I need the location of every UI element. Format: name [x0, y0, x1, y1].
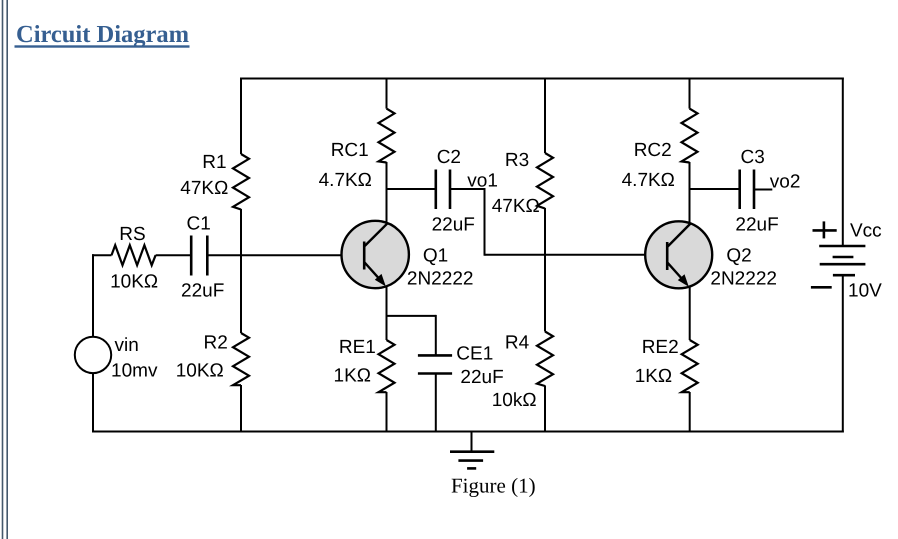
svg-text:RE1: RE1 — [339, 337, 376, 358]
wire collector node to C2 — [387, 188, 436, 190]
resistor RE2 1K — [682, 340, 698, 392]
capacitor C3 22uF — [740, 170, 754, 210]
svg-text:4.7KΩ: 4.7KΩ — [319, 170, 372, 191]
svg-text:47KΩ: 47KΩ — [180, 178, 228, 199]
wire C2 to vo1 corner — [450, 188, 486, 190]
svg-text:R4: R4 — [505, 332, 530, 353]
wire battery to bottom rail — [842, 275, 844, 432]
wire RS to C1 — [156, 254, 191, 256]
wire R3 column top — [544, 78, 546, 154]
svg-text:4.7KΩ: 4.7KΩ — [622, 170, 675, 191]
wire vo1 node to Q2 base (crosses R3 column) — [485, 254, 668, 256]
wire RE2 to bottom rail — [689, 392, 691, 433]
wire R4 to bottom rail — [544, 386, 546, 433]
wire RC2 column top — [689, 78, 691, 109]
wire R2 to bottom rail — [240, 385, 242, 433]
wire left input column (vin branch) — [92, 254, 94, 432]
wire input line vin to RS — [92, 254, 112, 256]
svg-text:10KΩ: 10KΩ — [176, 360, 224, 381]
wire CE1 to bottom rail — [435, 374, 437, 433]
resistor RS 10K — [112, 245, 156, 265]
svg-text:R3: R3 — [505, 150, 529, 171]
wire RC1 column top — [386, 78, 388, 109]
wire vo1 down — [484, 189, 486, 256]
wire node to R2 — [240, 255, 242, 334]
svg-text:10KΩ: 10KΩ — [110, 272, 158, 293]
svg-text:1KΩ: 1KΩ — [334, 365, 371, 386]
resistor RE1 1K — [379, 340, 395, 392]
source vin 10mv — [75, 337, 111, 373]
resistor R4 10k — [537, 332, 553, 387]
resistor R3 47K — [537, 153, 553, 209]
wire C3 to vo2 terminal — [754, 189, 772, 191]
wire C1 to Q1 base (through node at R1/R2) — [207, 254, 364, 256]
svg-text:Vcc: Vcc — [850, 220, 882, 241]
capacitor C1 22uF — [191, 236, 207, 276]
wire Vcc column top — [842, 78, 844, 247]
battery Vcc 10V — [819, 246, 865, 275]
transistor Q1 2N2222 — [342, 221, 409, 288]
svg-text:2N2222: 2N2222 — [407, 269, 474, 290]
svg-text:Q1: Q1 — [423, 246, 448, 267]
wire RC1 to Q1 collector — [386, 162, 388, 223]
title Circuit Diagram — [15, 21, 190, 48]
wire top supply rail — [240, 78, 844, 80]
page left border double line — [3, 0, 8, 539]
svg-text:vin: vin — [115, 335, 139, 356]
svg-text:C2: C2 — [437, 147, 461, 168]
ground — [450, 432, 494, 469]
wire R1 to input node — [240, 209, 242, 256]
resistor R2 10K — [233, 333, 249, 385]
svg-text:Q2: Q2 — [726, 246, 751, 267]
svg-text:RC2: RC2 — [634, 140, 672, 161]
wire RE1 to bottom rail — [386, 392, 388, 433]
svg-text:Figure (1): Figure (1) — [451, 474, 536, 498]
resistor RC1 4.7K — [379, 109, 395, 163]
svg-text:C1: C1 — [187, 213, 211, 234]
svg-text:RC1: RC1 — [331, 140, 369, 161]
wire R3 to base line node — [544, 208, 546, 256]
resistor R1 47K — [233, 154, 249, 210]
svg-text:22uF: 22uF — [460, 367, 503, 388]
battery plus sign — [813, 221, 837, 238]
svg-text:2N2222: 2N2222 — [710, 269, 777, 290]
resistor RC2 4.7K — [682, 109, 698, 163]
transistor Q2 2N2222 — [645, 221, 712, 288]
capacitor CE1 22uF — [418, 355, 452, 373]
svg-text:22uF: 22uF — [432, 215, 475, 236]
battery minus sign — [811, 286, 832, 289]
wire bottom ground rail — [92, 431, 844, 433]
svg-text:22uF: 22uF — [181, 281, 224, 302]
svg-text:R2: R2 — [204, 333, 228, 354]
capacitor C2 22uF — [436, 170, 450, 210]
wire node to R4 — [544, 254, 546, 332]
svg-text:10kΩ: 10kΩ — [492, 390, 537, 411]
svg-text:10mv: 10mv — [111, 361, 158, 382]
wire emitter branch to CE1 — [386, 315, 436, 356]
wire RC2 to Q2 collector — [689, 162, 691, 223]
wire R1 column top — [240, 78, 242, 155]
svg-text:10V: 10V — [848, 281, 882, 302]
svg-text:RS: RS — [119, 224, 145, 245]
wire Q1 emitter down — [386, 286, 388, 340]
svg-text:vo2: vo2 — [770, 171, 801, 192]
svg-text:CE1: CE1 — [456, 344, 493, 365]
svg-text:RE2: RE2 — [642, 337, 679, 358]
svg-text:C3: C3 — [741, 147, 765, 168]
svg-text:47KΩ: 47KΩ — [492, 196, 540, 217]
svg-text:R1: R1 — [202, 152, 226, 173]
svg-text:22uF: 22uF — [735, 215, 778, 236]
wire collector node to C3 — [690, 188, 740, 190]
wire Q2 emitter down — [689, 286, 691, 340]
svg-text:1KΩ: 1KΩ — [635, 366, 672, 387]
svg-text:vo1: vo1 — [467, 170, 498, 191]
svg-text:Circuit Diagram: Circuit Diagram — [16, 21, 189, 48]
